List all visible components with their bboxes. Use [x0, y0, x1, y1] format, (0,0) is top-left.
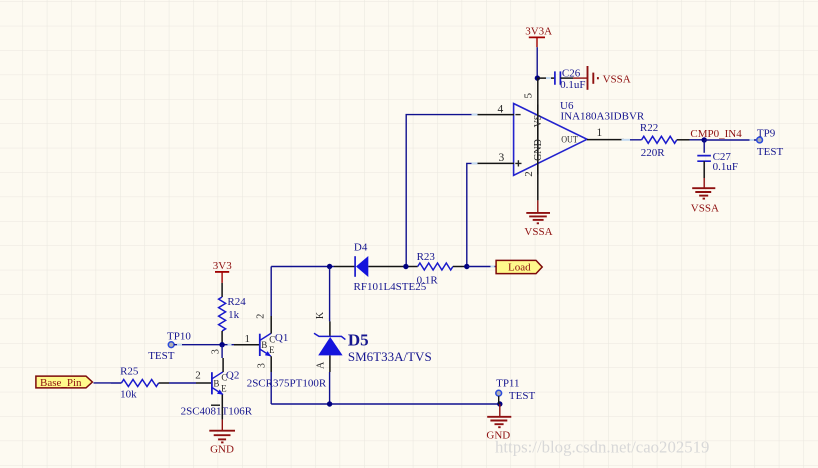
resistor R25	[121, 380, 169, 387]
svg-text:TP9: TP9	[757, 128, 776, 140]
wire R25 to Q2 base	[169, 382, 196, 384]
node VS junction	[535, 75, 540, 80]
node D5 top junction	[327, 264, 332, 269]
svg-text:B: B	[261, 340, 267, 350]
U6 pin 3 black pin stub	[478, 162, 515, 164]
svg-text:D4: D4	[354, 241, 368, 253]
wire R22 to node	[690, 139, 705, 141]
svg-text:0.1uF: 0.1uF	[713, 161, 738, 173]
node non-inverting riser junction	[464, 264, 469, 269]
port Base_Pin	[36, 376, 93, 389]
node D5 bottom junction	[327, 401, 332, 406]
svg-text:GND: GND	[533, 139, 544, 161]
wire D5 anode to bottom rail	[329, 372, 331, 404]
svg-text:1: 1	[245, 333, 251, 345]
svg-text:SM6T33A/TVS: SM6T33A/TVS	[348, 349, 432, 364]
svg-text:3V3: 3V3	[213, 260, 232, 272]
U6 pin 4 black pin stub	[478, 114, 515, 116]
capacitor C27	[697, 140, 711, 178]
svg-text:0.1uF: 0.1uF	[560, 79, 585, 91]
U6 output pin stub	[587, 139, 624, 141]
svg-text:E: E	[269, 345, 275, 355]
wire Q1 emitter to bottom rail	[270, 372, 272, 404]
R23 right pin stub	[453, 266, 467, 268]
D5 anode pin stub	[329, 355, 331, 372]
Q1 pin 1 base stub	[234, 344, 260, 346]
Q2 pin 2 base stub	[196, 382, 212, 384]
svg-text:R24: R24	[227, 296, 246, 308]
transistor Q1	[260, 333, 271, 356]
svg-text:A: A	[316, 361, 327, 369]
resistor R22	[642, 136, 690, 143]
transistor Q2	[212, 372, 223, 395]
svg-text:E: E	[221, 383, 227, 393]
capacitor C26	[555, 71, 573, 84]
op-amp U6	[514, 104, 587, 176]
wire 3V3A to node	[536, 47, 538, 78]
svg-text:R25: R25	[120, 365, 139, 377]
wire bottom rail	[271, 403, 500, 405]
power 3V3	[213, 260, 232, 283]
svg-text:https://blog.csdn.net/cao20251: https://blog.csdn.net/cao202519	[495, 438, 709, 457]
ground VSSA below C27	[691, 178, 719, 215]
wire Q1 collector to top rail	[270, 267, 272, 317]
ground VSSA below U6	[524, 200, 552, 238]
svg-text:K: K	[315, 311, 326, 319]
svg-text:4: 4	[498, 103, 504, 115]
svg-text:R22: R22	[640, 122, 658, 134]
U6 plus input mark	[515, 160, 521, 166]
wire node to TP9	[704, 139, 756, 141]
svg-text:GND: GND	[210, 443, 234, 455]
wire Base_Pin to R25	[94, 382, 122, 384]
svg-text:VS: VS	[533, 115, 544, 128]
Q2 emitter pin end tick	[211, 404, 220, 406]
svg-text:2SC4081T106R: 2SC4081T106R	[181, 405, 253, 417]
svg-text:5: 5	[523, 92, 535, 98]
svg-text:Q2: Q2	[226, 370, 239, 382]
svg-text:D5: D5	[348, 330, 369, 349]
svg-text:OUT: OUT	[561, 135, 578, 145]
wire non-inverting input from rail riser	[467, 163, 478, 266]
D5 cathode pin stub	[329, 321, 331, 336]
U6 minus input mark	[515, 114, 520, 116]
svg-text:Base_Pin: Base_Pin	[40, 377, 82, 389]
svg-text:VSSA: VSSA	[524, 226, 552, 238]
svg-text:1k: 1k	[228, 309, 240, 321]
svg-text:3V3A: 3V3A	[525, 25, 552, 37]
wire to Load port	[467, 266, 496, 268]
svg-text:1: 1	[597, 127, 603, 139]
svg-text:2: 2	[195, 370, 201, 382]
svg-text:CMP0_IN4: CMP0_IN4	[690, 128, 742, 140]
wire output to R22	[624, 139, 642, 141]
Q1 collector pin stub	[270, 316, 272, 334]
diode D4 anode-cathode pins	[334, 266, 418, 268]
svg-text:TEST: TEST	[757, 146, 784, 158]
svg-text:Q1: Q1	[275, 332, 288, 344]
svg-text:VSSA: VSSA	[603, 73, 631, 85]
Q2 emitter pin stub	[221, 395, 223, 420]
node inverting riser junction	[403, 264, 408, 269]
svg-text:B: B	[213, 378, 219, 388]
test point TP11	[496, 378, 536, 404]
svg-text:Load: Load	[508, 261, 531, 273]
svg-text:10k: 10k	[120, 388, 137, 400]
resistor R23	[418, 263, 453, 270]
svg-text:2SCR375PT100R: 2SCR375PT100R	[247, 378, 327, 390]
power VSSA (right of C26)	[573, 66, 631, 90]
test point TP10	[148, 330, 191, 362]
svg-text:TEST: TEST	[148, 350, 175, 362]
ground GND below Q2	[209, 420, 235, 456]
svg-text:TP10: TP10	[167, 330, 191, 342]
wire node to C26 pin	[537, 77, 554, 79]
U6 pin 5 (VS) and pin 2 (GND) vertical pin line	[537, 78, 539, 200]
wire compensation ticks	[177, 78, 754, 345]
Q1 emitter pin stub	[270, 356, 272, 372]
wire TP10 to base node	[174, 344, 234, 346]
node TP11 junction	[497, 401, 502, 406]
wire top rail left segment	[271, 266, 334, 268]
svg-text:220R: 220R	[641, 147, 666, 159]
Q2 collector pin stub	[222, 358, 224, 372]
svg-text:INA180A3IDBVR: INA180A3IDBVR	[561, 111, 645, 123]
power 3V3A	[525, 25, 552, 47]
diode D5 TVS	[314, 333, 345, 355]
svg-text:0.1R: 0.1R	[417, 274, 439, 286]
ground GND below TP11	[486, 404, 511, 442]
svg-text:3: 3	[256, 363, 267, 368]
diode D4	[355, 256, 368, 277]
svg-text:3: 3	[499, 152, 505, 164]
svg-text:TEST: TEST	[509, 390, 536, 402]
svg-text:TP11: TP11	[496, 378, 519, 390]
svg-text:2: 2	[523, 171, 535, 177]
svg-text:3: 3	[211, 349, 222, 354]
svg-text:VSSA: VSSA	[691, 203, 719, 215]
wire D5 top	[329, 267, 331, 322]
svg-text:2: 2	[256, 314, 267, 319]
port Load	[496, 260, 542, 273]
test point TP9	[757, 128, 784, 158]
wire inverting input from rail riser	[406, 115, 477, 267]
resistor R24	[219, 283, 226, 345]
svg-text:R23: R23	[417, 251, 436, 263]
node base junction	[219, 342, 224, 347]
node CMP0_IN4 junction	[702, 137, 707, 142]
wire Q2 collector to base node	[221, 345, 223, 358]
